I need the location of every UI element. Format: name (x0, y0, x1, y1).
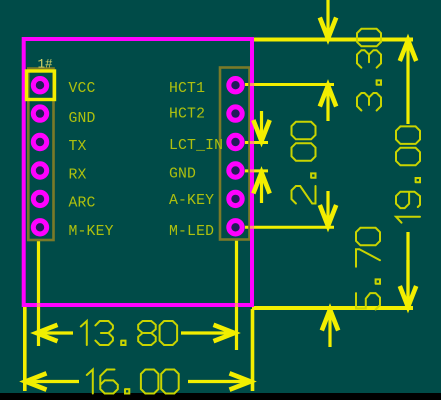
svg-text:LCT_IN: LCT_IN (169, 138, 223, 154)
svg-text:VCC: VCC (69, 81, 96, 97)
dimension text 19.00 (396, 126, 420, 222)
arrow 19.00 top (up) (406, 40, 409, 124)
connector outline right column (220, 68, 250, 240)
pad 3 TX (36, 138, 44, 146)
pad 4 RX (36, 166, 44, 174)
pad 7 HCT1 (231, 81, 239, 89)
connector outline left column (28, 69, 53, 241)
wire 13.80 right extension line (235, 240, 238, 350)
arrow 19.00 bottom (down) (406, 260, 409, 307)
arrow 2.00 bottom (up) (260, 173, 263, 204)
svg-text:GND: GND (169, 167, 196, 183)
arrow 16.00 right (188, 380, 251, 383)
svg-text:1#: 1# (38, 58, 54, 72)
svg-text:TX: TX (69, 139, 87, 155)
wire bottom board-edge dimension line (252, 306, 413, 310)
wire LCT_IN row extension line (245, 141, 268, 144)
wire crossing blends (250, 83, 254, 86)
wire M-LED row extension line (245, 226, 334, 229)
pad 11 A-KEY (231, 195, 239, 203)
svg-text:HCT1: HCT1 (169, 81, 205, 97)
arrow 5.70 bottom (up) (328, 310, 331, 348)
wire top board-edge dimension line (250, 38, 413, 42)
arrow 13.80 left (37, 331, 74, 334)
svg-text:HCT2: HCT2 (169, 107, 205, 123)
dimension text 13.80 (81, 321, 177, 345)
pad 9 LCT_IN (231, 138, 239, 146)
bottom black band (0, 393, 441, 400)
arrow 2.00 top (down) (260, 111, 263, 141)
dimension text 5.70 (356, 228, 380, 310)
arrow 3.30 top (down) (326, 0, 329, 39)
arrow 3.30 bottom (up) (326, 86, 329, 122)
svg-text:GND: GND (69, 111, 96, 127)
pad 5 ARC (36, 195, 44, 203)
arrow 5.70 top (down) (326, 191, 329, 226)
wire 13.80 left extension line (37, 240, 40, 346)
pad 1 marker square (27, 71, 55, 100)
dimension text 16.00 (87, 370, 179, 394)
board outline (courtyard) (24, 39, 252, 305)
svg-text:ARC: ARC (69, 196, 96, 212)
svg-text:M-LED: M-LED (169, 224, 214, 240)
pad 12 M-LED (231, 223, 239, 231)
arrow 13.80 right (181, 331, 235, 334)
wire 16.00 left extension line (23, 307, 27, 391)
pad 1 VCC (36, 81, 44, 89)
dimension text 2.00 (292, 122, 316, 204)
pad 6 M-KEY (36, 223, 44, 231)
arrow 16.00 left (26, 380, 80, 383)
pad 8 HCT2 (231, 109, 239, 117)
wire 16.00 right extension line (251, 309, 255, 391)
dimension text 3.30 (357, 29, 381, 111)
pad 2 GND (36, 109, 44, 117)
wire 19.00 shaft lower (406, 232, 409, 300)
wire GND row extension line (245, 169, 268, 172)
pad 10 GND (231, 166, 239, 174)
wire HCT1 row extension line (245, 83, 334, 86)
svg-text:A-KEY: A-KEY (169, 193, 214, 209)
svg-text:RX: RX (69, 168, 87, 184)
svg-text:M-KEY: M-KEY (69, 224, 114, 240)
